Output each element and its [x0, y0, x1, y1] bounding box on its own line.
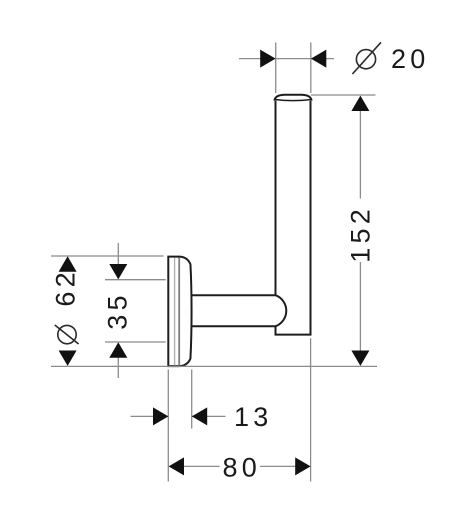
13 left leader line	[131, 415, 169, 417]
dia62 top extension line	[51, 255, 164, 257]
dia20 dimension line	[239, 58, 334, 60]
svg-text:62: 62	[51, 268, 81, 306]
svg-text:35: 35	[102, 291, 132, 329]
tube left edge upper	[275, 101, 277, 295]
rosette inner edge line 2	[178, 258, 180, 366]
diameter symbol left circle	[58, 325, 76, 343]
tube bottom edge	[275, 334, 312, 336]
152 top extension line	[311, 94, 376, 96]
35 bottom extension line	[105, 341, 166, 343]
tube right edge	[310, 101, 312, 335]
80 dimension line right segment	[260, 465, 297, 467]
arm-tube fillet joint	[276, 295, 287, 326]
diameter symbol left slash	[55, 325, 79, 344]
35 upper tail line	[117, 243, 119, 266]
dia20 left extension line	[275, 43, 277, 94]
80 right extension line	[310, 338, 312, 481]
dia62 top arrowhead	[59, 256, 77, 271]
diameter symbol top circle	[356, 50, 375, 69]
dia20 right arrowhead	[311, 50, 326, 68]
svg-text:152: 152	[346, 205, 376, 263]
13 left extension line (wall plane)	[167, 370, 169, 482]
13 right arrowhead	[192, 407, 207, 425]
dia20 right extension line	[310, 43, 312, 94]
svg-text:80: 80	[223, 453, 261, 483]
35 bottom arrowhead	[109, 342, 127, 357]
tube cap dome	[274, 95, 311, 101]
tube left edge lower	[275, 326, 277, 334]
dia20 left arrowhead	[260, 50, 275, 68]
152 top arrowhead	[351, 96, 369, 111]
diameter symbol top slash	[352, 42, 381, 74]
152 dimension line lower	[359, 262, 361, 352]
dia62 bottom arrowhead	[59, 351, 77, 366]
tube cap rim line	[275, 100, 312, 101]
152 bottom arrowhead	[351, 351, 369, 366]
35 lower tail line	[117, 357, 119, 379]
arm bottom edge	[192, 325, 276, 327]
bottom wall-plane extension line	[51, 365, 377, 367]
152 dimension line upper	[359, 109, 361, 199]
80 right arrowhead	[295, 457, 310, 475]
80 left arrowhead	[169, 457, 184, 475]
wall rosette outline	[168, 257, 191, 367]
rosette inner edge line 1	[174, 258, 176, 366]
13 right leader line	[192, 415, 226, 417]
35 top extension line	[105, 279, 166, 281]
arm top edge	[192, 294, 276, 296]
svg-text:20: 20	[391, 44, 429, 74]
80 dimension line left segment	[182, 465, 220, 467]
13 right extension line (rosette face)	[191, 370, 193, 429]
svg-text:13: 13	[234, 402, 272, 432]
35 top arrowhead	[109, 264, 127, 279]
13 left arrowhead	[153, 407, 168, 425]
